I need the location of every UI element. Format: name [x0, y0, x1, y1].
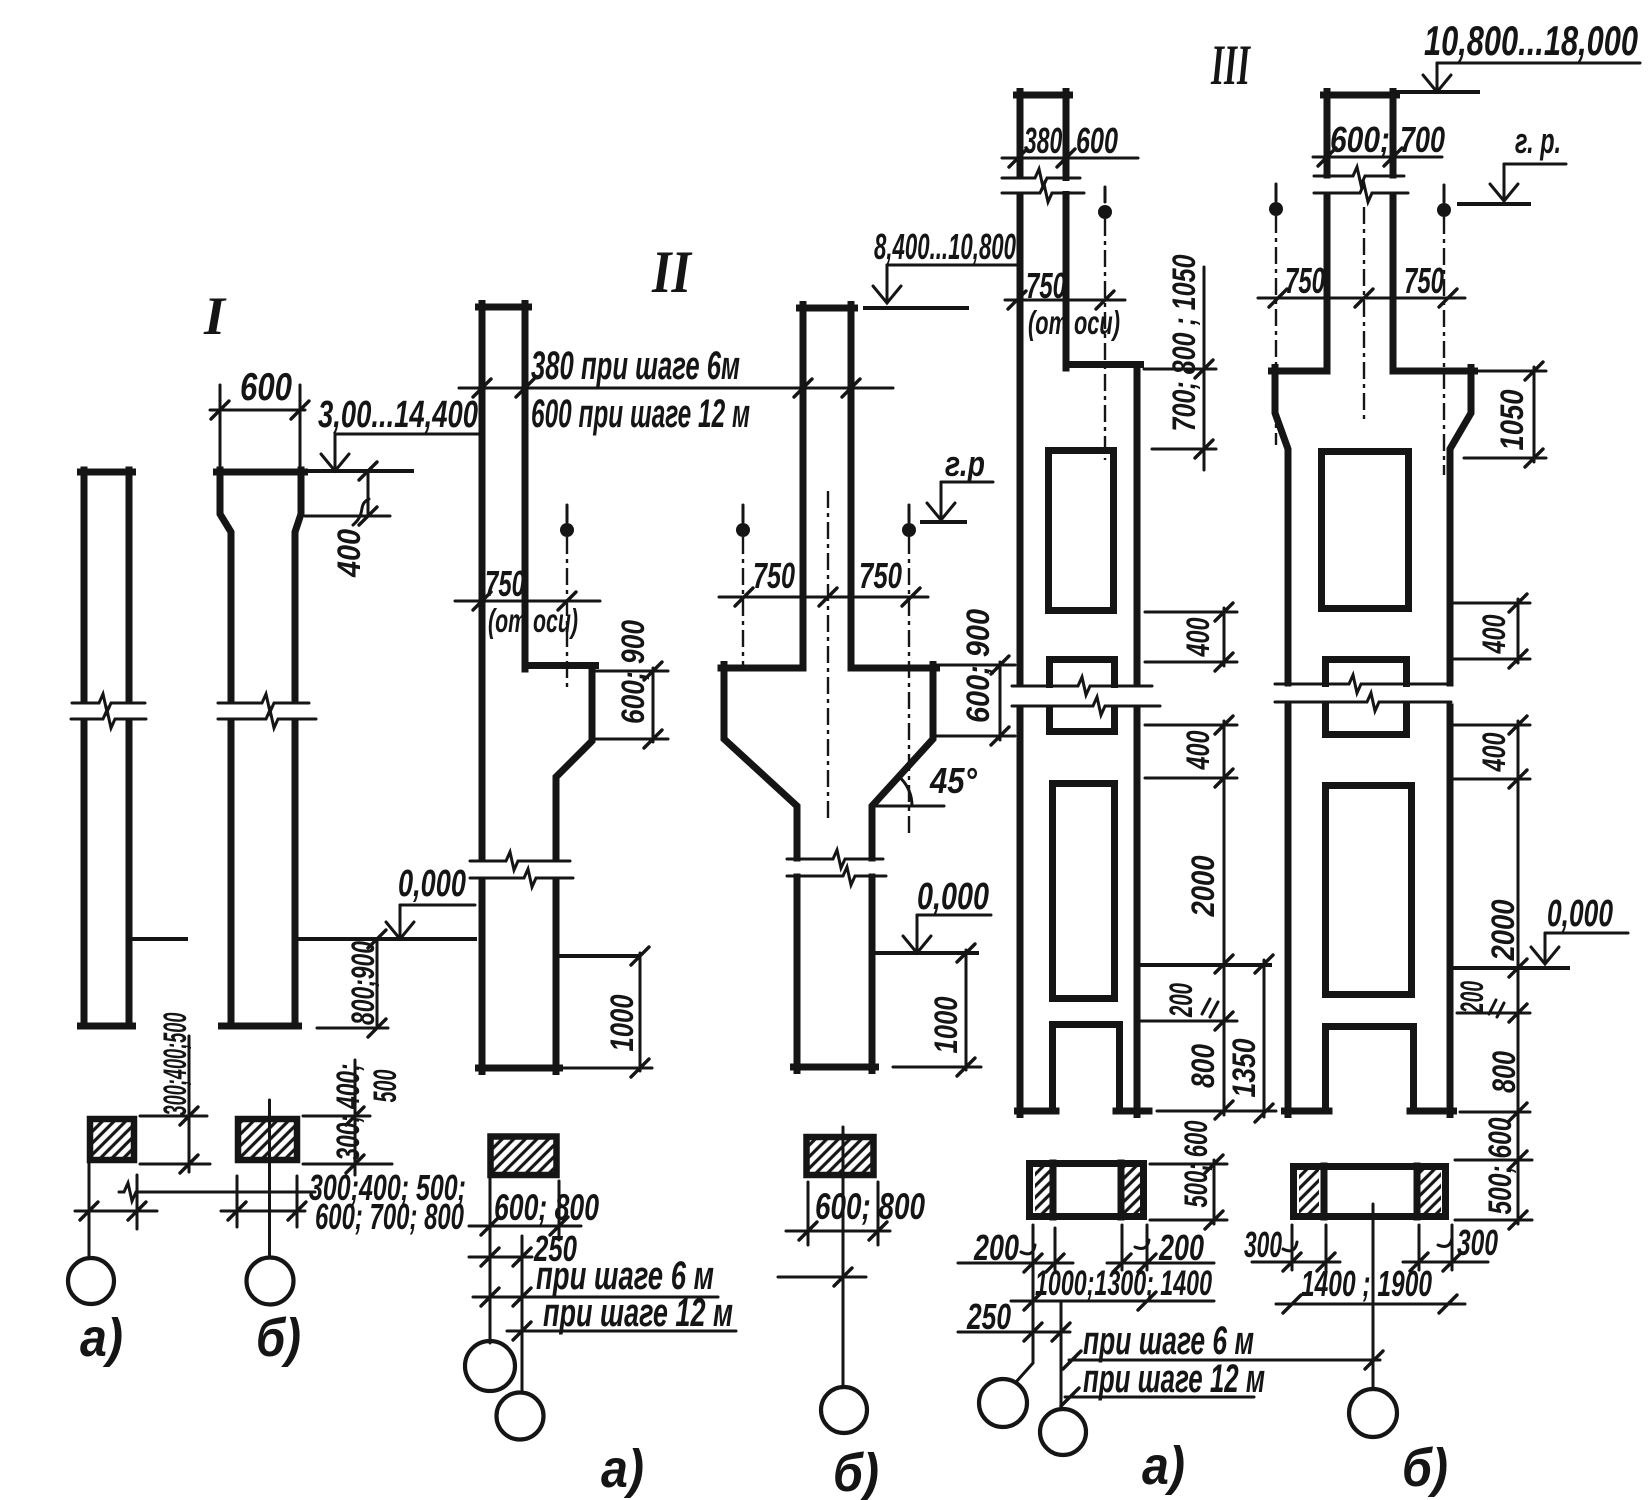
dim 1000 (II-b base depth) — [965, 950, 968, 1070]
svg-text:б): б) — [833, 1443, 879, 1500]
column I-b outline (tapered head) — [217, 469, 305, 476]
axis lines III-a — [1016, 1225, 1033, 1382]
svg-text:1000: 1000 — [604, 994, 640, 1051]
svg-text:2000: 2000 — [1185, 855, 1221, 917]
svg-text:800: 800 — [1185, 1044, 1221, 1088]
svg-text:600: 600 — [240, 366, 292, 409]
svg-text:2000: 2000 — [1485, 899, 1521, 961]
axis circle III-b — [1349, 1389, 1397, 1437]
svg-text:300;400;500: 300;400;500 — [157, 1012, 193, 1115]
dim 700;800;1050 (III-a corbel) — [1203, 267, 1206, 470]
svg-text:I: I — [203, 286, 227, 346]
svg-text:600; 900: 600; 900 — [960, 609, 996, 723]
svg-text:г. р.: г. р. — [1515, 120, 1561, 161]
svg-text:III: III — [1210, 34, 1251, 97]
svg-text:45°: 45° — [929, 760, 977, 801]
svg-text:300: 300 — [1457, 1222, 1498, 1263]
axis circle I-b — [247, 1258, 294, 1305]
svg-text:3,00...14,400: 3,00...14,400 — [318, 394, 478, 436]
svg-text:750: 750 — [485, 563, 525, 604]
column II-b outline (symmetric 45deg head) — [800, 305, 855, 312]
svg-text:10,800...18,000: 10,800...18,000 — [1424, 17, 1638, 64]
svg-text:при шаге 12 м: при шаге 12 м — [1083, 1357, 1265, 1401]
foundation II-a (hatched) — [491, 1137, 557, 1176]
45 degree angle mark — [872, 805, 944, 808]
svg-text:1050: 1050 — [1494, 389, 1530, 450]
column I-b break symbol — [218, 694, 309, 712]
column II-b break symbol — [787, 850, 883, 868]
svg-text:1400 ; 1900: 1400 ; 1900 — [1301, 1263, 1432, 1304]
svg-text:500; 600: 500; 600 — [1482, 1117, 1518, 1214]
axis circle I-a — [68, 1258, 114, 1304]
column I-a break symbol — [72, 694, 145, 712]
dim 400 (strut III-a lower) + long chain — [1223, 721, 1226, 1115]
crane rail markers group II — [566, 505, 569, 522]
svg-text:600; 900: 600; 900 — [615, 620, 651, 724]
svg-text:400: 400 — [1180, 617, 1216, 657]
svg-text:600; 800: 600; 800 — [815, 1186, 925, 1227]
break symbols III-a — [1016, 181, 1072, 191]
svg-text:750: 750 — [753, 555, 795, 596]
axis line III-b — [1372, 1204, 1375, 1389]
svg-text:а): а) — [601, 1439, 644, 1499]
column III-a outline (two-branch, corbel right) — [1017, 92, 1070, 99]
column III-b outline (two-branch symmetric) — [1324, 92, 1397, 99]
svg-text:750: 750 — [859, 555, 902, 596]
column III-b centre axis — [1363, 207, 1365, 421]
axis line I-b — [268, 1100, 271, 1255]
svg-text:800;900: 800;900 — [345, 941, 381, 1025]
dim 800;900 (ground to column base) — [376, 939, 379, 1028]
crane rail marker III-a — [1104, 187, 1107, 202]
dim 400 (strut III-b lower) + long chain — [1517, 721, 1520, 1224]
svg-text:1350: 1350 — [1226, 1038, 1262, 1097]
svg-text:400: 400 — [1476, 614, 1512, 654]
svg-text:300; 400;: 300; 400; — [330, 1064, 366, 1161]
dim 600;900 (corbel II-b) — [999, 662, 1002, 740]
foundation I-b (hatched) — [238, 1119, 297, 1160]
svg-text:II: II — [651, 239, 693, 305]
svg-text:0,000: 0,000 — [398, 863, 466, 905]
dim 300;400;500 (foundation I-b height) — [303, 1115, 370, 1118]
svg-text:1000;1300; 1400: 1000;1300; 1400 — [1035, 1264, 1212, 1303]
svg-text:б): б) — [256, 1308, 301, 1368]
foundation I-a (hatched) — [90, 1119, 134, 1160]
dim 1000 (II-a base depth) — [639, 953, 642, 1071]
svg-text:500; 600: 500; 600 — [1178, 1120, 1214, 1207]
svg-text:380 при шаге 6м: 380 при шаге 6м — [531, 344, 740, 388]
dim 600;900 (corbel II-a) — [652, 668, 655, 742]
svg-text:600; 800: 600; 800 — [494, 1187, 599, 1228]
svg-text:600: 600 — [1076, 120, 1118, 161]
column I-b ground line — [298, 937, 475, 941]
svg-text:б): б) — [1402, 1438, 1448, 1498]
dim 1050 (III-b head) — [1533, 367, 1536, 462]
svg-text:200: 200 — [1454, 981, 1490, 1014]
svg-text:300: 300 — [1244, 1224, 1282, 1265]
svg-text:600 при шаге 12 м: 600 при шаге 12 м — [531, 392, 750, 436]
dim 400 (strut III-b upper) — [1517, 599, 1520, 663]
break symbols III-b — [1331, 179, 1389, 191]
dim 500;600 (foundation III-a height) — [1213, 1160, 1216, 1224]
branch openings III-b — [1322, 452, 1409, 609]
svg-text:при шаге 12 м: при шаге 12 м — [543, 1291, 733, 1335]
crane rail markers III-b — [1275, 184, 1278, 201]
branch openings III-a — [1049, 451, 1114, 611]
level line III-a — [1141, 963, 1270, 967]
dim 1350 III-a — [1263, 960, 1266, 1117]
axis line I-a — [88, 1163, 91, 1257]
axis lines II-a — [489, 1178, 492, 1343]
svg-text:г.р: г.р — [945, 443, 985, 484]
axis circles II-a — [465, 1341, 515, 1391]
svg-text:200: 200 — [1163, 983, 1199, 1018]
svg-text:а): а) — [80, 1308, 123, 1368]
column II-a ground line — [559, 954, 637, 958]
column II-b centre axis — [827, 491, 829, 820]
svg-text:0,000: 0,000 — [1547, 893, 1613, 935]
column II-a outline (single corbel) — [479, 304, 529, 311]
svg-text:600;: 600; — [1330, 119, 1390, 160]
foundation III-a (cup type) — [1030, 1164, 1144, 1217]
dim line 380/600 across group II — [459, 387, 893, 390]
svg-text:700: 700 — [1400, 119, 1445, 160]
svg-text:(от оси): (от оси) — [488, 602, 578, 639]
axis circles III-a — [979, 1379, 1027, 1427]
column I-a outline — [81, 469, 133, 476]
svg-text:750: 750 — [1404, 260, 1444, 301]
svg-text:а): а) — [1142, 1436, 1185, 1496]
branch feet III-b — [1285, 1108, 1330, 1115]
svg-text:380;: 380; — [1024, 120, 1070, 161]
svg-text:400: 400 — [331, 529, 367, 578]
dim 300;400;500 (foundation I-a height) — [140, 1115, 207, 1118]
branch feet III-a — [1018, 1108, 1057, 1115]
axis line II-b — [842, 1127, 845, 1387]
svg-text:500: 500 — [367, 1069, 403, 1102]
column II-a break symbol — [470, 852, 570, 870]
svg-text:600; 700; 800: 600; 700; 800 — [315, 1196, 464, 1237]
note 300;400;500 / 600;700;800 (section sizes group I) — [119, 1183, 315, 1201]
dim 400 (strut III-a upper) — [1223, 608, 1226, 666]
column I-a ground line — [132, 937, 186, 941]
svg-text:800: 800 — [1486, 1051, 1522, 1093]
svg-text:400: 400 — [1476, 732, 1512, 772]
svg-text:0,000: 0,000 — [917, 876, 989, 918]
svg-text:400: 400 — [1180, 730, 1216, 770]
axis circle II-b — [821, 1387, 867, 1433]
dim 400 (head taper) — [367, 473, 370, 515]
svg-text:8,400...10,800: 8,400...10,800 — [874, 226, 1016, 267]
dim line under foundation I-b — [221, 1210, 305, 1213]
svg-text:700; 800 ; 1050: 700; 800 ; 1050 — [1166, 254, 1202, 431]
dim line under foundation I-a — [75, 1210, 157, 1213]
svg-text:1000: 1000 — [928, 996, 964, 1053]
svg-text:750: 750 — [1285, 260, 1325, 301]
foundation II-b (hatched) — [807, 1137, 874, 1175]
foundation III-b (cup type) — [1294, 1167, 1446, 1217]
